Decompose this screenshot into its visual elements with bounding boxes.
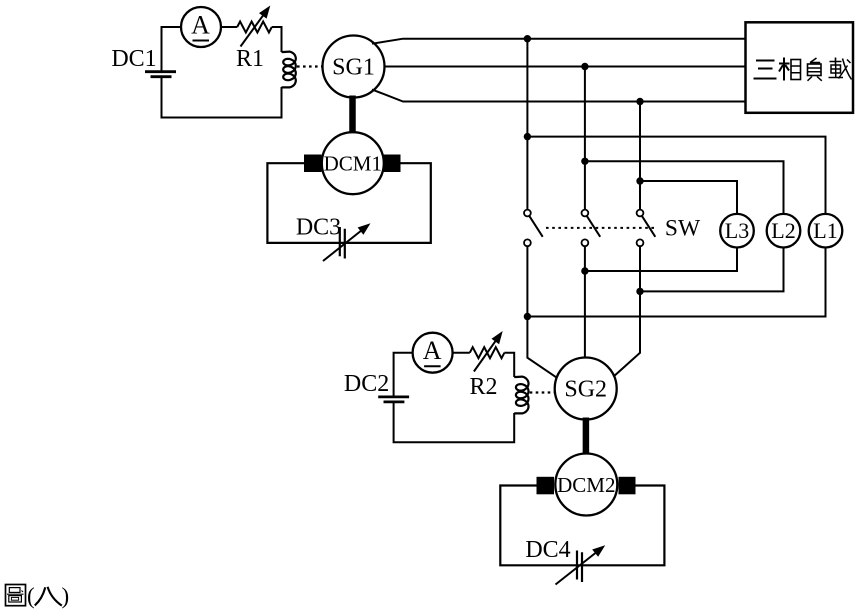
svg-text:DC4: DC4 (525, 537, 570, 563)
junction L3 return (581, 267, 588, 274)
generator SG1 (323, 36, 385, 98)
wire lamp L2 return to bus W (640, 248, 784, 292)
wire lamp L1 top feeder (527, 137, 825, 214)
wire bus V below switch to SG2 (584, 246, 586, 357)
svg-text:DC1: DC1 (111, 46, 156, 72)
wire DC2 loop (394, 353, 515, 443)
wire DC3 armature loop (267, 163, 430, 243)
wire DC4 armature loop (500, 486, 664, 566)
brush right DCM2 (619, 477, 636, 495)
wire bus V drop to switch (584, 67, 586, 210)
svg-text:DCM1: DCM1 (324, 152, 382, 176)
junction phase 1 / bus U (524, 35, 531, 42)
shaft SG2 to DCM2 (583, 418, 590, 456)
junction phase 2 / bus V (581, 63, 588, 70)
junction lamp L2 feed (581, 158, 588, 165)
wire bus W drop to switch (639, 102, 641, 210)
junction lamp L3 feed (636, 177, 643, 184)
ammeter A2 (413, 333, 453, 373)
junction lamp L1 feed (524, 133, 531, 140)
switch SW pole at x=527 (524, 210, 543, 247)
source DC3 arrow (323, 223, 371, 261)
field coil of SG2 (514, 377, 528, 414)
svg-text:DCM2: DCM2 (557, 473, 615, 497)
motor DCM2 (555, 454, 617, 516)
brush left DCM1 (304, 155, 322, 173)
svg-text:R1: R1 (236, 46, 264, 72)
svg-text:L2: L2 (771, 218, 795, 243)
caption 圖(八) (6, 584, 70, 609)
junction phase 3 / bus W (636, 98, 643, 105)
svg-text:DC3: DC3 (296, 215, 341, 241)
svg-text:SG2: SG2 (564, 377, 607, 403)
field coil of SG1 (282, 52, 296, 88)
svg-text:(: ( (27, 584, 35, 609)
rheostat R2 (470, 331, 505, 372)
svg-text:SW: SW (665, 216, 701, 242)
battery DC2 (378, 397, 409, 402)
wire bus W below switch to SG2 (613, 246, 641, 377)
svg-text:L1: L1 (813, 218, 837, 243)
motor DCM1 (322, 132, 384, 194)
source DC4 arrow (556, 545, 606, 584)
lamp L2 (767, 214, 801, 248)
shaft SG1 to DCM1 (349, 96, 356, 135)
lamp L1 (809, 214, 843, 248)
wire bus U drop to switch (526, 39, 528, 210)
svg-text:A: A (423, 336, 442, 365)
wire DC1 loop (162, 27, 282, 118)
rheostat R1 (237, 6, 272, 47)
wire lamp L2 top feeder (585, 161, 784, 214)
source DC3 bars (340, 227, 345, 259)
wire phase 1 SG1 to load (372, 39, 746, 44)
label three-phase load 三相負載 (754, 58, 852, 81)
junction L2 return (636, 288, 643, 295)
wire bus U below switch to SG2 (527, 246, 557, 378)
wire lamp L1 return to bus U (527, 248, 825, 317)
battery DC1 (145, 72, 176, 77)
generator SG2 (555, 358, 617, 420)
switch SW linkage dashed (546, 227, 656, 229)
svg-text:DC2: DC2 (344, 371, 389, 397)
ammeter A1 (181, 7, 221, 47)
dotted link coil to SG1 (297, 65, 322, 67)
wire phase 3 SG1 to load (372, 90, 746, 102)
svg-text:R2: R2 (469, 374, 497, 400)
switch SW pole at x=640 (637, 210, 656, 247)
junction L1 return (524, 313, 531, 320)
wire phase 2 SG1 to load (385, 66, 746, 68)
svg-text:A: A (191, 11, 210, 40)
brush left DCM2 (537, 477, 555, 495)
lamp L3 (720, 214, 754, 248)
dotted link coil to SG2 (530, 391, 554, 393)
wire lamp L3 return to bus V (585, 248, 737, 272)
svg-text:): ) (62, 584, 70, 609)
source DC4 bars (577, 551, 582, 583)
three-phase load box (746, 22, 854, 113)
svg-text:SG1: SG1 (332, 55, 375, 81)
wire lamp L3 top feeder (640, 181, 737, 214)
svg-text:L3: L3 (725, 218, 749, 243)
switch SW pole at x=585 (582, 210, 601, 247)
brush right DCM1 (384, 155, 401, 173)
